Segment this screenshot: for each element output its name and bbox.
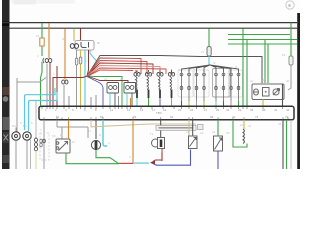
svg-text:K6: K6 — [52, 134, 56, 138]
svg-text:71: 71 — [232, 115, 236, 119]
connector pair on orange wire — [45, 59, 52, 63]
wire yellow V x74 to relay — [73, 29, 75, 42]
maroon elbow to coil2 — [153, 149, 162, 162]
svg-text:T1: T1 — [88, 129, 92, 133]
green V x291 — [290, 23, 292, 56]
gray enclosure box sensor pair 3 — [213, 69, 231, 98]
svg-text:L2: L2 — [240, 123, 244, 127]
left sidebar — [2, 0, 10, 169]
wire gray below relay — [76, 50, 78, 106]
wire gray left border elbow — [17, 78, 46, 132]
svg-text:31: 31 — [226, 108, 230, 112]
svg-text:S3: S3 — [226, 131, 230, 135]
connector on orange wire 2 — [62, 80, 68, 84]
svg-text:T2: T2 — [150, 132, 154, 136]
svg-text:F7: F7 — [201, 50, 205, 54]
blue wire junction to sensor — [153, 150, 191, 166]
svg-text:27: 27 — [204, 108, 208, 112]
tiny scattered labels — [12, 34, 290, 159]
ignition coil L1 — [134, 70, 140, 106]
injector box A — [107, 83, 119, 94]
relay K1 — [75, 41, 94, 51]
svg-text:b1: b1 — [137, 73, 141, 77]
svg-text:S2: S2 — [200, 131, 204, 135]
svg-text:d1: d1 — [250, 79, 254, 83]
svg-text:35: 35 — [250, 108, 254, 112]
wire maroon V x50 below connector — [49, 63, 51, 106]
svg-text:21: 21 — [178, 108, 182, 112]
svg-text:b2: b2 — [148, 73, 152, 77]
svg-text:b3: b3 — [159, 73, 163, 77]
ECU pin ticks — [42, 107, 283, 109]
svg-text:15: 15 — [36, 34, 40, 38]
gauge M1 — [12, 128, 20, 170]
flasher module — [56, 139, 70, 153]
maroon arrowhead — [150, 160, 155, 165]
svg-text:78: 78 — [278, 122, 282, 126]
green wire flasher to junction — [66, 153, 119, 164]
right black strip — [297, 13, 300, 169]
injector box B — [124, 83, 136, 94]
connector arc on green wire — [43, 58, 44, 63]
svg-text:41: 41 — [274, 108, 278, 112]
svg-text:k2: k2 — [72, 140, 75, 144]
svg-text:29: 29 — [216, 108, 220, 112]
wire green V x42 — [41, 23, 43, 106]
green V pair to ECU — [243, 29, 247, 106]
svg-text:30: 30 — [62, 37, 66, 41]
green U with coil2 — [233, 120, 247, 147]
red drop to coil4 — [171, 70, 173, 75]
small gray tag x199 — [198, 125, 204, 130]
wire cyan below relay — [84, 50, 86, 106]
fuse F1 on green wire — [40, 38, 44, 46]
sensor box slash 2 — [214, 120, 223, 169]
ignition coil L4 — [168, 70, 174, 106]
svg-text:74: 74 — [255, 115, 259, 119]
svg-text:63: 63 — [170, 115, 174, 119]
gray wire x291 bottom — [290, 120, 292, 169]
svg-text:44: 44 — [286, 108, 290, 112]
svg-text:19: 19 — [163, 108, 167, 112]
svg-text:L5: L5 — [248, 124, 252, 128]
connector pills below relay — [75, 57, 81, 65]
svg-text:11: 11 — [110, 108, 113, 112]
wire green H y75 — [87, 76, 122, 106]
wire maroon to fan apex — [87, 50, 89, 76]
wire cyan diag below relay — [90, 50, 97, 61]
orange stub below ECU x68.5 — [68, 120, 70, 139]
gray feed to chain — [35, 101, 37, 138]
green bus horizontals right — [228, 35, 297, 45]
green V x268 to throttle — [267, 44, 269, 83]
svg-text:M1: M1 — [12, 124, 16, 128]
green wire coil to junction — [96, 150, 119, 163]
sensor fan center — [182, 65, 239, 72]
connector chain x36 — [35, 138, 38, 151]
svg-text:13: 13 — [127, 108, 131, 112]
tan wire sloping right — [91, 120, 196, 127]
wire maroon V x57 — [56, 66, 58, 106]
throttle body unit — [252, 84, 284, 106]
cyan stub below ECU x103 — [103, 120, 107, 146]
fuse F2 on green — [207, 47, 211, 57]
wire orange V x49 — [48, 23, 50, 58]
orange stub above ECU x130 — [130, 98, 132, 106]
injector group sensors — [180, 72, 240, 101]
svg-text:51: 51 — [56, 115, 60, 119]
junction wires y163 — [119, 162, 149, 164]
wire dark gray H y57 to right — [160, 56, 262, 84]
dark wire x283 bottom — [282, 120, 284, 169]
label box under ECU — [156, 126, 196, 131]
wire maroon H y80 feeding injector boxes — [87, 76, 128, 83]
svg-text:s1: s1 — [186, 130, 189, 134]
svg-text:c1: c1 — [104, 77, 107, 81]
gray wire x44 to bottom — [43, 120, 46, 169]
svg-text:TB3: TB3 — [156, 111, 162, 115]
svg-text:k1: k1 — [60, 133, 63, 137]
connector chain x41 — [40, 139, 43, 147]
ignition coil L3 — [157, 70, 163, 106]
ignition coil L2 — [145, 70, 151, 106]
ECU long connector box — [39, 106, 294, 120]
green wire x288 bottom — [286, 120, 288, 169]
wire cyan V x209 to apex — [208, 56, 210, 65]
gauge M2 — [23, 132, 31, 169]
svg-text:M2: M2 — [23, 124, 27, 128]
sensor box slash 1 — [189, 120, 198, 149]
svg-text:d2: d2 — [262, 78, 266, 82]
svg-text:b4: b4 — [170, 73, 174, 77]
wire maroon V x53 — [52, 77, 54, 106]
wire green V x209 from bus — [208, 29, 210, 47]
ignition coil main — [91, 120, 100, 150]
svg-text:85: 85 — [97, 41, 101, 45]
faint page-top text remnants — [11, 0, 75, 5]
gray elbow feeding flasher — [57, 120, 88, 139]
svg-text:c2: c2 — [120, 77, 123, 81]
wire yellow below relay — [80, 50, 82, 106]
wire gray V x64 below connector — [63, 85, 65, 106]
connector pair left of relay — [70, 44, 78, 49]
faint enclosure boxes around sensors — [178, 70, 243, 97]
svg-text:s4: s4 — [212, 130, 215, 134]
svg-text:15: 15 — [140, 108, 144, 112]
help icon top right — [286, 1, 294, 9]
svg-text:d3: d3 — [286, 79, 290, 83]
wire gray below fuse x291 — [288, 65, 291, 90]
wire orange V x65 — [64, 29, 66, 80]
wire blue short from apex — [87, 77, 103, 106]
bus line lower — [10, 27, 298, 29]
harness fan from apex — [87, 56, 166, 77]
green V x265 to throttle — [264, 40, 266, 84]
orange wire x133 down — [132, 120, 134, 163]
dashed enclosure — [40, 133, 49, 160]
extra stubs above ECU — [69, 95, 119, 106]
colored stubs under sensors — [182, 101, 239, 106]
svg-text:68: 68 — [210, 115, 214, 119]
pale wire below chain — [35, 151, 37, 169]
wire maroon V x80 to relay — [80, 29, 82, 42]
bus line upper — [2, 22, 297, 24]
wires below injector boxes — [110, 93, 132, 106]
wire gray V x47 — [46, 64, 48, 106]
wire maroon H y77 — [53, 76, 87, 78]
fuse on x291 — [289, 56, 293, 65]
coil unit icon — [152, 120, 165, 161]
svg-text:24: 24 — [190, 108, 194, 112]
wire yellow below throttle — [262, 100, 264, 106]
svg-text:38: 38 — [262, 108, 266, 112]
svg-text:F9: F9 — [282, 53, 286, 57]
svg-text:59: 59 — [133, 115, 137, 119]
cyan loop wires left of ECU — [25, 88, 58, 131]
